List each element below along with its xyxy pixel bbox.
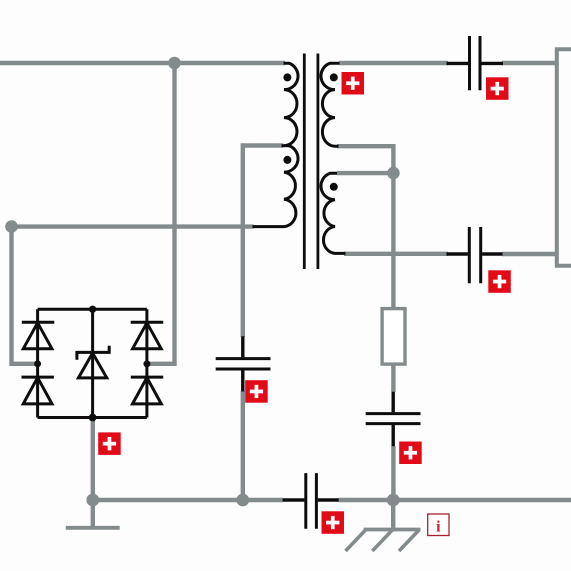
hotspot plus button at capacitor C1 [486,77,509,100]
capacitor C2 leads [447,252,503,255]
wire: resistor R1 to capacitor C4 [391,364,395,392]
transformer T1 polarity dot W4 [330,183,338,191]
diode D1 cathode bar [22,321,55,324]
wire: vertical drop from top net junction down to bridge right AC node [147,63,175,364]
transformer T1 polarity dot W3 [330,73,338,81]
node: bridge left AC node [34,360,41,367]
wire: left vertical down to bridge left AC node [12,227,38,364]
capacitor C4 plates [366,414,421,424]
wire: primary bottom net y=226.6 from left dot to transformer primary bottom [12,224,254,228]
wire: below capacitor C3 down to bottom rail [241,391,245,500]
node: bottom rail junction at bridge [86,494,99,507]
hotspot plus button at capacitor C2 [488,270,511,293]
diode D4 cathode bar [131,376,163,379]
transformer T1 polarity dot W2 [283,156,291,164]
wire: secondary winding W3 bottom terminal to corner and down to junction [337,146,393,173]
wire: capacitor C2 to output bracket [502,252,557,256]
transformer T1 secondary winding W3 [321,63,340,146]
wire: stub down to signal ground [91,500,95,526]
zener diode D5 triangle [78,353,106,378]
diode D3 connecting lines [145,309,148,417]
node: junction dot at left corner of primary bottom net [5,220,18,233]
transformer T1 primary winding W2 [253,146,299,227]
wire: junction to secondary winding W4 top terminal [337,171,393,175]
transformer T1 mid-tap stub [282,144,290,147]
diode D2 cathode bar [22,376,54,379]
info box [428,514,449,536]
node: bridge bottom junction [89,414,97,422]
zener diode D5 cathode bar with bent ends [77,346,109,360]
node: bottom rail junction at C3 [236,494,249,507]
diode D4 triangle [133,378,162,404]
svg-text:i: i [436,518,441,535]
node: bridge right AC node [143,360,150,367]
wire: bottom ground rail left part [93,498,283,502]
node: junction dot on top net [168,57,181,70]
transformer T1 primary winding W1 [284,63,299,145]
diode D1 triangle [23,323,52,349]
ground: chassis ground diagonal 2 [372,530,393,552]
hotspot plus button at capacitor C3 [245,380,268,403]
hotspot plus button at transformer [342,72,365,95]
transformer T1 core [304,54,318,270]
ground: chassis ground diagonal 3 [399,530,420,552]
hotspot plus button at capacitor C6 [322,511,345,534]
capacitor C4 leads [392,392,395,446]
capacitor C1 leads [447,62,504,65]
resistor R1 [382,309,405,365]
diode D3 triangle [133,323,162,349]
capacitor C2 plates [469,227,480,283]
wire: secondary bottom net y=253.5 from winding W4 to capacitor C2 [344,252,448,256]
capacitor C6 leads [283,498,339,501]
diode D2 triangle [23,378,52,404]
capacitor C3 plates [216,359,271,369]
ground: chassis ground bar [364,528,421,532]
wire: output bracket right side [557,49,571,265]
hotspot plus button at capacitor C4 [399,442,422,465]
wire: bridge output down to bottom rail [91,419,95,500]
rectifier bridge top bar [38,308,147,311]
wire: stub down to chassis ground [391,500,395,528]
wire: junction down to resistor R1 [391,173,395,309]
node: bridge top junction [89,306,96,313]
rectifier bridge bottom bar [38,416,147,419]
wire: capacitor C4 down to bottom rail [391,446,395,500]
diode D3 cathode bar [131,321,164,324]
wire: capacitor C1 to output bracket [502,61,557,65]
wire: secondary top net y=63 from transformer to capacitor C1 [339,61,448,65]
wire: bottom ground rail right part [339,498,571,502]
capacitor C1 plates [470,36,481,90]
ground: chassis ground diagonal 1 [346,530,367,552]
wire: top input net y=63 from left edge to transformer primary top [0,61,285,65]
wire: primary mid-tap horizontal y=145.5 and vertical x=242.8 down to capacitor C3 [243,146,283,338]
capacitor C6 plates [306,473,317,529]
node: junction dot secondary center tap [387,167,400,180]
node: bottom rail junction at chassis ground [387,494,400,507]
capacitor C3 leads [241,336,244,391]
hotspot plus button at bridge [98,432,121,455]
transformer T1 secondary winding W4 [321,173,346,253]
transformer T1 polarity dot W1 [283,73,291,81]
diode D1 connecting lines [36,309,39,417]
zener diode D5 connecting lines [91,309,94,417]
ground: signal ground bar [66,526,120,530]
